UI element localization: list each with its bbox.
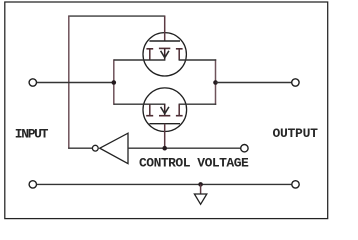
- wire top rail from inverter output riser to Q1 gate: [68, 15, 165, 17]
- Q1 drain contact stem: [178, 49, 180, 60]
- wire Q1 drain rail: [179, 59, 217, 61]
- inverter U1 bubble: [92, 145, 98, 151]
- Q1 substrate serif: [159, 47, 170, 49]
- wire left control riser (inverter output up to top rail): [68, 16, 70, 149]
- Q2 source contact serif: [146, 115, 153, 117]
- svg-text:OUTPUT: OUTPUT: [273, 126, 319, 141]
- wire right junction vertical: [215, 59, 217, 105]
- node right junction: [213, 80, 218, 85]
- inverter U1 triangle: [100, 133, 128, 163]
- svg-text:INPUT: INPUT: [15, 127, 49, 142]
- wire Q1 source rail: [114, 59, 166, 61]
- Q2 drain contact serif: [176, 115, 183, 117]
- Q1 source contact serif: [146, 48, 153, 50]
- Q2 substrate arrow: [161, 107, 169, 114]
- output terminal: [292, 79, 299, 86]
- transistor Q2 body: [143, 88, 187, 132]
- wire left junction vertical: [113, 59, 115, 105]
- Q1 substrate stem: [164, 48, 166, 59]
- wire bottom ground rail: [37, 183, 292, 185]
- Q1 source contact stem: [149, 49, 151, 60]
- wire Q2 source rail: [114, 103, 166, 105]
- wire Q2 drain rail: [179, 103, 217, 105]
- control voltage terminal: [241, 145, 248, 152]
- Q2 drain contact stem: [178, 104, 180, 116]
- wire Q1 gate lead: [164, 16, 166, 41]
- wire control voltage line: [128, 147, 241, 149]
- transistor Q1 body: [143, 33, 186, 76]
- wire Q2 gate lead: [164, 124, 166, 149]
- node ground tap: [198, 182, 203, 187]
- wire ground stem: [200, 184, 202, 194]
- wire right junction to OUTPUT: [216, 82, 292, 84]
- input terminal: [29, 79, 36, 86]
- wire inverter output to riser: [68, 147, 92, 149]
- bottom-left terminal: [29, 181, 36, 188]
- wire INPUT to left junction: [37, 82, 114, 84]
- Q1 gate bar: [149, 40, 180, 42]
- bottom-right terminal: [292, 181, 299, 188]
- node left junction: [112, 80, 117, 85]
- Q1 substrate arrow: [161, 51, 169, 58]
- node Q2 gate tap: [162, 146, 167, 151]
- ground: [194, 194, 206, 204]
- Q2 substrate serif: [159, 115, 170, 117]
- Q1 drain contact serif: [176, 48, 183, 50]
- Q2 source contact stem: [149, 104, 151, 116]
- svg-text:CONTROL VOLTAGE: CONTROL VOLTAGE: [139, 156, 249, 171]
- Q2 substrate stem: [164, 104, 166, 115]
- Q2 gate bar: [149, 123, 180, 125]
